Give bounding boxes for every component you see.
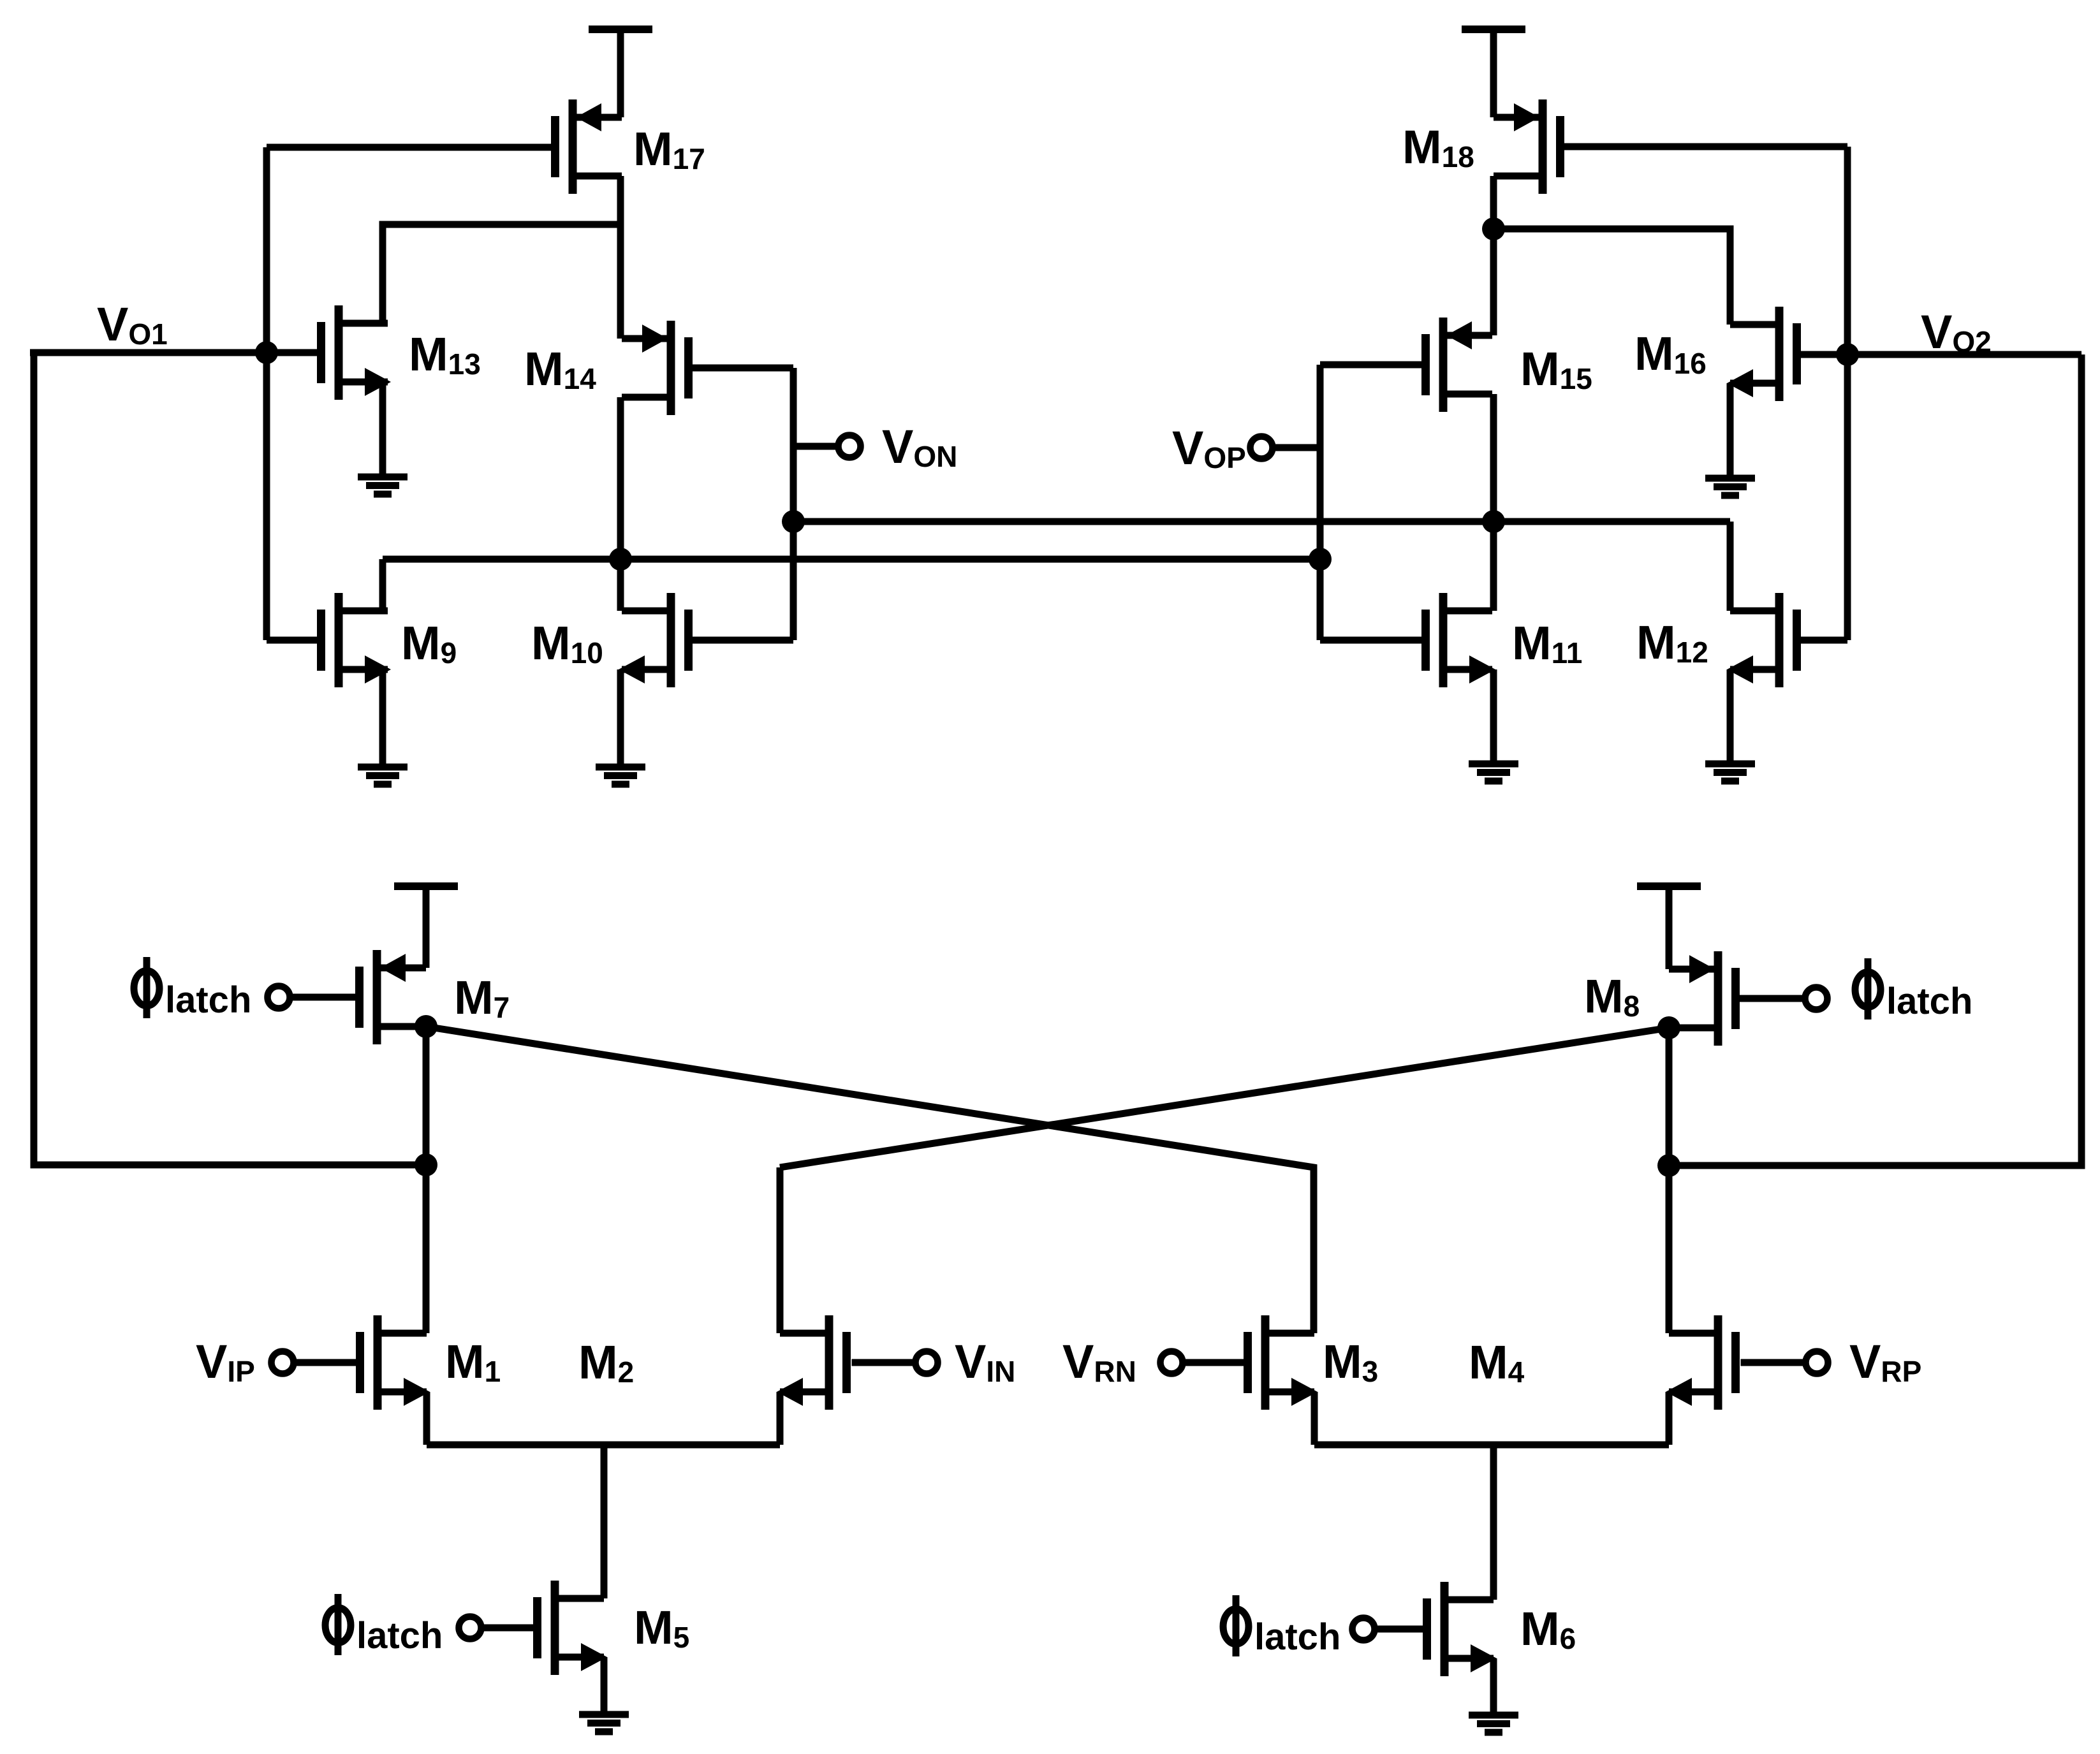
label phi latch left of M6: [1223, 1595, 1340, 1658]
wire M4 source down: [1666, 1392, 1673, 1445]
label M5: [634, 1601, 689, 1654]
ground below M6: [1469, 1715, 1518, 1732]
VDD supply symbol at M18: [1462, 26, 1525, 33]
wire VON stub: [793, 443, 839, 450]
ground below M16: [1705, 478, 1755, 495]
wire node A M13 drain to M17 drain: [383, 224, 620, 323]
wire node VO1 horizontal: [30, 349, 321, 356]
transistor M2: [777, 1315, 847, 1410]
terminal circle phi latch at M8: [1805, 988, 1828, 1010]
transistor M16: [1727, 307, 1797, 401]
wire node C to M16 source: [1494, 229, 1730, 325]
terminal circle VIN: [916, 1352, 938, 1374]
label phi latch left of M7: [134, 957, 251, 1021]
label phi latch right of M8: [1855, 958, 1972, 1022]
terminal circle phi latch at M7: [268, 986, 290, 1009]
wire M11 gate lead: [1320, 637, 1426, 644]
wire M7 drain vertical to M1 drain: [423, 1027, 430, 1333]
label VRN: [1062, 1335, 1136, 1388]
wire M15/M11 gate vertical (node VOP): [1317, 365, 1324, 640]
ground below M10: [596, 767, 645, 784]
transistor M1: [360, 1315, 430, 1410]
wire VO2 rail right side: [1669, 354, 2082, 1166]
ground below M13: [358, 477, 408, 494]
label M7: [454, 971, 510, 1024]
ground below M12: [1705, 764, 1755, 781]
label VIP: [196, 1335, 255, 1388]
label VRP: [1849, 1335, 1921, 1388]
junction node VO2: [1836, 343, 1859, 366]
wire M12 drain up to upper cross wire: [1727, 522, 1734, 611]
wire M9 gate lead: [267, 637, 321, 644]
transistor M7: [360, 950, 427, 1044]
svg-text:latch: latch: [1886, 981, 1972, 1022]
junction node B on lower cross wire: [609, 548, 632, 571]
wire M4 gate stub: [1741, 1359, 1807, 1366]
wire M18 drain down to M15 source: [1490, 176, 1497, 335]
junction node H on VO2 rail at M8/M4: [1657, 1154, 1680, 1177]
wire VDD stem to M7 source: [423, 886, 430, 968]
transistor M15: [1426, 318, 1493, 412]
svg-text:latch: latch: [356, 1615, 443, 1656]
wire VDD stem to M17 source: [617, 29, 624, 117]
label M2: [578, 1336, 634, 1389]
wire M5 source to ground: [601, 1657, 608, 1714]
transistor M9: [321, 593, 392, 687]
transistor M12: [1727, 593, 1797, 687]
wire node VO2 horizontal: [1797, 351, 2082, 358]
label M1: [445, 1335, 501, 1388]
label M11: [1512, 617, 1582, 669]
wire M14 drain down to node B: [617, 397, 624, 611]
terminal circle phi latch at M5: [459, 1617, 481, 1639]
ground below M9: [358, 767, 408, 784]
wire M5 gate stub: [480, 1625, 534, 1632]
junction node C at M18 drain: [1482, 217, 1505, 240]
wire M6 drain stem: [1490, 1445, 1497, 1600]
label M8: [1584, 970, 1640, 1023]
label M18: [1402, 121, 1474, 173]
wire M10 gate lead: [689, 637, 794, 644]
terminal circle VRP: [1806, 1352, 1828, 1374]
wire M5 drain stem: [601, 1445, 608, 1598]
VDD supply symbol at M7: [394, 882, 458, 890]
label M15: [1520, 342, 1592, 395]
wire M1 gate stub: [292, 1359, 360, 1366]
wire M11 source to ground: [1490, 669, 1497, 764]
wire M15 gate lead: [1320, 362, 1426, 369]
junction node F on VO1 rail at M7/M1: [415, 1153, 437, 1176]
label M13: [409, 328, 481, 381]
transistor M18: [1494, 99, 1560, 194]
label M14: [524, 342, 596, 395]
wire M9 source to ground: [379, 669, 386, 767]
transistor M17: [555, 99, 622, 194]
label M3: [1323, 1335, 1378, 1388]
VDD supply symbol at M8: [1637, 882, 1701, 890]
transistor M6: [1427, 1582, 1497, 1676]
wire M12 source to ground: [1727, 669, 1734, 764]
wire M15 drain down to M11 drain: [1490, 394, 1497, 611]
wire common source of M3/M4: [1314, 1442, 1669, 1449]
label M12: [1636, 616, 1708, 669]
wire M3 gate stub: [1182, 1359, 1248, 1366]
label VO1: [97, 298, 168, 351]
terminal circle VON: [839, 435, 861, 458]
wire M14 gate lead: [689, 365, 794, 372]
label VO2: [1921, 305, 1992, 358]
wire diagonal M7 drain to M3 drain: [426, 1027, 1314, 1333]
wire M17 drain down to M14 source: [617, 176, 624, 339]
wire M1 source down: [423, 1392, 430, 1445]
junction node E at M7 drain: [415, 1015, 437, 1038]
junction node G at M8 drain: [1657, 1016, 1680, 1039]
wire M14/M10 gate vertical (node VON): [790, 368, 797, 640]
wire VO1 vertical to M9 gate: [263, 147, 270, 640]
wire diagonal M8 drain to M2 drain: [780, 1028, 1669, 1167]
wire M17 gate to node VO1 vertical: [267, 144, 552, 151]
wire M2 gate stub: [852, 1359, 917, 1366]
transistor M4: [1666, 1315, 1736, 1410]
junction node VO1: [255, 341, 278, 364]
wire M6 gate stub: [1374, 1626, 1423, 1633]
VDD supply symbol at M17: [589, 26, 652, 33]
wire M8 gate stub: [1740, 995, 1807, 1002]
wire lower cross (M9 drain and node B to VOP node): [383, 556, 1320, 563]
terminal circle VIP: [272, 1352, 294, 1374]
label VIN: [955, 1335, 1015, 1388]
wire VDD stem to M8 source: [1666, 886, 1673, 969]
label M6: [1520, 1602, 1576, 1655]
wire M16 drain to ground: [1727, 383, 1734, 478]
wire M3 source down: [1311, 1392, 1318, 1445]
transistor M5: [538, 1581, 608, 1675]
wire upper cross (VON node to M15/M11 drains and M12 drain): [793, 518, 1730, 525]
transistor M10: [619, 593, 689, 687]
junction junction lower cross at VOP vertical: [1309, 548, 1332, 571]
label phi latch left of M5: [325, 1594, 443, 1656]
wire M9 drain up to lower cross wire: [379, 559, 386, 611]
transistor M8: [1669, 951, 1736, 1046]
wire M18 gate to node VO2 vertical: [1560, 143, 1848, 150]
transistor M11: [1426, 593, 1496, 687]
wire M2 source down: [777, 1392, 784, 1445]
wire VO2 vertical to M12 gate: [1844, 147, 1851, 640]
terminal circle VRN: [1161, 1352, 1183, 1374]
svg-text:latch: latch: [1254, 1616, 1340, 1658]
label VOP: [1172, 421, 1246, 474]
ground below M11: [1469, 764, 1518, 781]
wire M10 source to ground: [617, 669, 624, 767]
transistor M13: [321, 305, 392, 400]
wire M12 gate lead: [1797, 637, 1848, 644]
label M9: [401, 617, 457, 669]
wire M6 source to ground: [1490, 1658, 1497, 1715]
label VON: [882, 420, 957, 473]
label M10: [531, 617, 603, 669]
label M16: [1634, 327, 1707, 380]
svg-text:latch: latch: [165, 979, 251, 1021]
transistor M14: [622, 321, 689, 415]
junction node D on upper cross wire: [1482, 510, 1505, 533]
wire M7 gate stub: [286, 994, 356, 1001]
wire M2 drain vertical from diagonal: [777, 1167, 784, 1333]
label M4: [1469, 1336, 1525, 1389]
label M17: [633, 122, 705, 175]
wire VDD stem to M18 source: [1490, 29, 1497, 117]
junction junction upper cross at VON vertical: [782, 510, 805, 533]
wire M8 drain vertical to M4 drain: [1666, 1028, 1673, 1333]
wire common source of M1/M2: [427, 1442, 780, 1449]
ground below M5: [579, 1714, 629, 1732]
terminal circle VOP: [1251, 437, 1273, 459]
transistor M3: [1248, 1315, 1318, 1410]
wire VOP stub: [1272, 444, 1320, 451]
wire M13 source to ground: [379, 382, 386, 477]
terminal circle phi latch at M6: [1353, 1618, 1375, 1641]
wire VO1 rail left side: [34, 353, 426, 1165]
